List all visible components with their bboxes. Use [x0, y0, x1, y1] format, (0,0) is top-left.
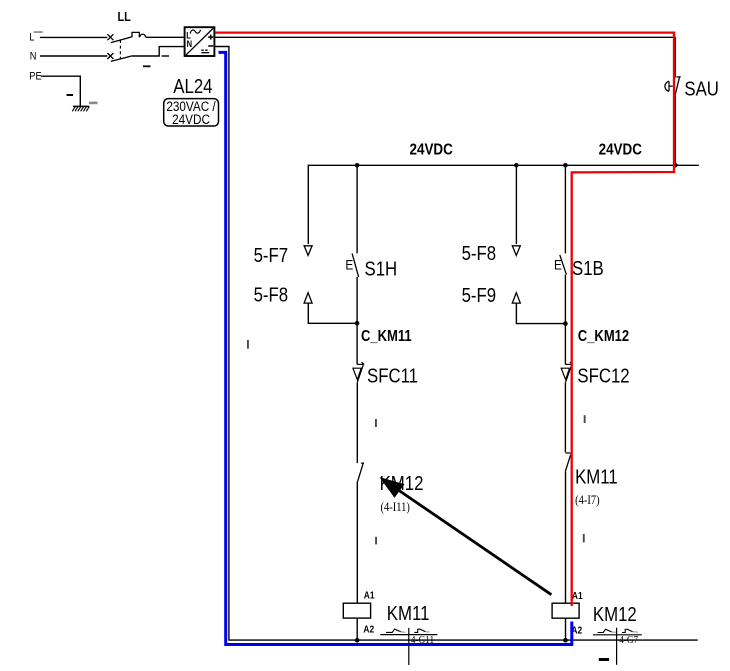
- label KM11 contact: [575, 465, 618, 488]
- svg-text:(4-I7): (4-I7): [575, 494, 600, 507]
- wire branch2 arrows: [515, 165, 517, 244]
- wire branch1 arrows: [307, 165, 309, 245]
- svg-text:A1: A1: [364, 590, 375, 601]
- svg-text:E: E: [345, 256, 353, 272]
- node L: [29, 32, 34, 44]
- svg-text:KM11: KM11: [575, 465, 618, 488]
- svg-text:4-G7: 4-G7: [619, 634, 638, 646]
- connection dash after N corner: [162, 55, 169, 57]
- pin A1 KM11: [364, 590, 375, 601]
- circuit breaker LL label: [118, 9, 131, 24]
- svg-text:LL: LL: [118, 9, 131, 24]
- wire 0V from PSU: [214, 47, 697, 641]
- svg-text:5-F9: 5-F9: [462, 284, 497, 307]
- label SFC12: [577, 364, 629, 387]
- svg-text:C_KM12: C_KM12: [578, 328, 629, 345]
- label KM12 contact: [380, 471, 424, 494]
- arrow out 5-F7: [304, 246, 312, 256]
- label 5-F8 right: [462, 242, 497, 265]
- svg-text:24VDC: 24VDC: [410, 142, 454, 159]
- svg-text:SFC12: SFC12: [577, 364, 629, 387]
- svg-text:5-F7: 5-F7: [254, 243, 289, 266]
- svg-text:AL24: AL24: [173, 75, 212, 98]
- label 5-F7: [254, 243, 289, 266]
- label SFC11: [367, 364, 418, 387]
- label (4-I11): [381, 501, 410, 514]
- connector SFC11: [353, 362, 364, 382]
- connection dash bottom: [599, 658, 609, 661]
- switch SAU: [665, 77, 681, 96]
- svg-text:KM12: KM12: [593, 603, 637, 626]
- wire branch2 upper: [564, 165, 566, 253]
- svg-text:N: N: [30, 51, 37, 63]
- wire arrow to S1H branch: [308, 303, 357, 323]
- circuit breaker LL mechanical link: [119, 40, 121, 59]
- node PE: [29, 71, 42, 83]
- circuit breaker LL pole L: [107, 32, 184, 42]
- label box 230VAC/24VDC: [164, 98, 219, 127]
- svg-text:A2: A2: [363, 624, 374, 635]
- wire PE: [41, 76, 81, 106]
- switch S1H: [345, 253, 358, 277]
- node N: [30, 51, 37, 63]
- arrow out 5-F8: [512, 246, 520, 256]
- wire mark I branch1 low: [375, 537, 377, 545]
- connector SFC12: [561, 362, 572, 382]
- pin A2 KM11: [363, 624, 374, 635]
- svg-text:E: E: [554, 256, 562, 272]
- label C_KM11: [361, 328, 412, 345]
- label 5-F8: [254, 283, 289, 306]
- wire mark I near 0V wire: [247, 340, 249, 349]
- svg-text:24VDC: 24VDC: [172, 111, 210, 127]
- contact mirror KM11: [380, 628, 437, 665]
- wire coil KM12 to rail: [565, 618, 567, 640]
- wire L: [40, 36, 107, 38]
- arrow in 5-F9: [512, 293, 520, 303]
- wire branch1 to coil: [356, 481, 358, 603]
- pin A2 KM12: [571, 625, 582, 636]
- junction dot KM12 A2: [563, 638, 568, 643]
- junction dot KM11 A2: [355, 638, 360, 643]
- power supply AL24 box: [185, 27, 215, 56]
- connection dash near PE: [67, 94, 73, 96]
- svg-text:L: L: [29, 32, 34, 44]
- switch S1B: [554, 255, 566, 275]
- label S1B: [572, 257, 604, 280]
- contact mirror KM12: [593, 628, 642, 665]
- wire arrow to S1B branch: [516, 303, 565, 323]
- wire mark I branch2 low: [583, 534, 585, 543]
- ground: [72, 106, 89, 111]
- wire branch1 lower: [356, 382, 358, 463]
- label (4-I7): [575, 494, 600, 507]
- label KM12 coil: [593, 603, 637, 626]
- contact KM12 (4-I11): [358, 463, 365, 481]
- svg-text:5-F8: 5-F8: [254, 283, 289, 306]
- label SAU: [684, 77, 719, 100]
- wire mark I branch1: [375, 419, 377, 427]
- label S1H: [365, 257, 398, 280]
- arrow in 5-F8: [304, 293, 312, 303]
- svg-text:C_KM11: C_KM11: [361, 328, 412, 345]
- label KM11 coil: [387, 602, 430, 625]
- wire branch2 lower: [564, 382, 566, 452]
- label 24VDC left: [410, 142, 454, 159]
- label 24VDC right: [599, 141, 643, 158]
- connection dash above L: [34, 31, 43, 33]
- 24VDC rail: [308, 164, 699, 166]
- cursor arrow: [380, 477, 552, 595]
- svg-text:SFC11: SFC11: [367, 364, 418, 387]
- wire N: [40, 55, 107, 57]
- wire mark I branch2: [584, 415, 586, 423]
- coil KM12: [552, 603, 579, 618]
- wire branch2 to coil: [565, 471, 567, 603]
- wire +24V top: [214, 37, 675, 165]
- contact KM11 (4-I7): [565, 453, 570, 471]
- highlight +24V path (red): [216, 33, 675, 606]
- junction dot C_KM11: [355, 321, 360, 326]
- svg-text:PE: PE: [29, 71, 42, 83]
- svg-text:(4-I11): (4-I11): [381, 501, 410, 514]
- wire branch1 upper: [356, 165, 358, 253]
- pin A1 KM12: [572, 590, 583, 601]
- circuit breaker LL pole N: [107, 47, 184, 62]
- label AL24: [173, 75, 212, 98]
- wire branch2 mid: [564, 275, 566, 365]
- connection dash near ground: [89, 102, 98, 105]
- svg-text:KM11: KM11: [387, 602, 430, 625]
- junction dot rail branch2: [563, 163, 568, 168]
- svg-text:S1B: S1B: [572, 257, 604, 280]
- coil KM11: [343, 603, 370, 618]
- junction dot rail branch2a: [514, 163, 519, 168]
- svg-text:24VDC: 24VDC: [599, 141, 643, 158]
- svg-text:5-F8: 5-F8: [462, 242, 497, 265]
- highlight 0V path (blue): [219, 52, 572, 644]
- svg-text:A1: A1: [572, 590, 583, 601]
- svg-text:S1H: S1H: [365, 257, 398, 280]
- junction dot rail branch1: [355, 163, 360, 168]
- svg-text:N: N: [187, 39, 192, 50]
- junction dot rail SAU: [673, 163, 678, 168]
- label C_KM12: [578, 328, 629, 345]
- svg-text:SAU: SAU: [684, 77, 719, 100]
- label 5-F9: [462, 284, 497, 307]
- wire coil KM11 to rail: [356, 618, 358, 640]
- connection dash under N wire: [143, 65, 151, 67]
- wire branch1 mid: [356, 277, 358, 365]
- junction dot C_KM12: [563, 321, 568, 326]
